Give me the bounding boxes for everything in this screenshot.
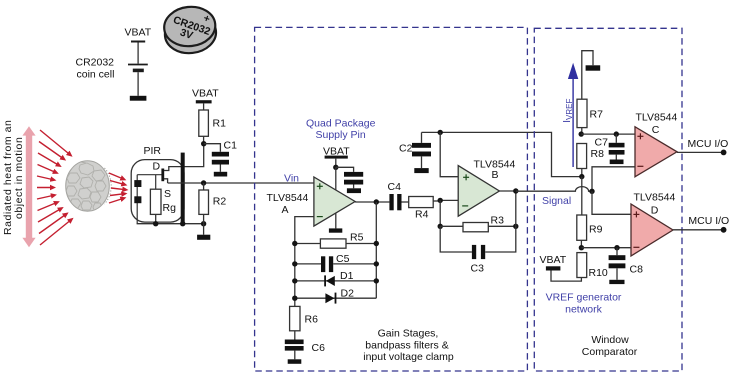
svg-text:C6: C6 bbox=[312, 342, 326, 354]
svg-text:C: C bbox=[652, 124, 660, 136]
op-amp U1B label bbox=[474, 159, 516, 182]
wire R3 row right bbox=[488, 225, 516, 227]
capacitor C2 plate 2 bbox=[412, 152, 431, 157]
wire signal to D plus bbox=[592, 191, 631, 214]
junction R9 R10 bbox=[579, 245, 584, 250]
svg-text:R5: R5 bbox=[350, 232, 364, 244]
capacitor C8 plate 2 bbox=[609, 263, 626, 268]
svg-text:CR2032: CR2032 bbox=[76, 57, 115, 69]
ground bbox=[130, 96, 147, 101]
capacitor C3 plate 2 bbox=[481, 245, 485, 259]
wire supply to bypass cap bbox=[336, 167, 354, 172]
svg-text:object in motion: object in motion bbox=[13, 137, 25, 219]
junction D2 left bbox=[292, 296, 297, 301]
wire supply node into op-amp A bbox=[335, 167, 337, 190]
wire R10 to VBAT bbox=[551, 271, 581, 282]
op-amp D plus pin bbox=[633, 211, 639, 217]
resistor R5 bbox=[320, 239, 346, 248]
junction vref node bbox=[579, 174, 584, 179]
op-amp U1A bbox=[314, 177, 355, 226]
svg-text:C2: C2 bbox=[399, 143, 413, 155]
wire R3 row left bbox=[440, 225, 463, 227]
battery plate short bbox=[133, 69, 144, 73]
VBAT rail bar bbox=[196, 100, 212, 103]
JFET source lead bbox=[164, 179, 168, 183]
svg-text:S: S bbox=[164, 188, 171, 200]
svg-text:Gain Stages,: Gain Stages, bbox=[378, 328, 439, 340]
battery plate long bbox=[128, 64, 148, 66]
svg-text:MCU I/O: MCU I/O bbox=[688, 215, 729, 227]
wire C8 to ground bbox=[616, 268, 618, 280]
svg-text:C1: C1 bbox=[224, 140, 238, 152]
svg-text:C4: C4 bbox=[388, 181, 402, 193]
node MCU I/O (C) bbox=[721, 150, 727, 156]
ground C2 bbox=[414, 168, 428, 173]
svg-text:D2: D2 bbox=[341, 288, 355, 300]
junction D1 right bbox=[374, 278, 379, 283]
wire C7 to ground bbox=[615, 155, 617, 160]
junction signal node bbox=[589, 189, 594, 194]
ground C6 bbox=[288, 359, 302, 364]
wire R8 to vref node bbox=[581, 169, 583, 177]
svg-text:D: D bbox=[153, 161, 161, 173]
diode D2 bbox=[325, 293, 334, 303]
svg-text:VREF generator: VREF generator bbox=[546, 292, 622, 304]
fresnel lens dome bbox=[66, 161, 112, 211]
wire feedback left rail bbox=[294, 244, 296, 307]
op-amp U1C label bbox=[636, 111, 678, 136]
svg-text:Comparator: Comparator bbox=[582, 346, 638, 358]
wire divider top L bbox=[582, 51, 593, 99]
wire B plus bias node bbox=[422, 132, 582, 176]
svg-text:R9: R9 bbox=[589, 224, 603, 236]
svg-text:R10: R10 bbox=[589, 267, 608, 279]
svg-text:Quad Package: Quad Package bbox=[306, 118, 376, 130]
wire D1 row bbox=[295, 280, 377, 282]
wire vref rail through hop bbox=[581, 177, 583, 215]
diode D1 bbox=[326, 276, 335, 286]
wire bbox=[137, 43, 139, 64]
junction C5 left bbox=[292, 261, 297, 266]
resistor R6 bbox=[290, 306, 300, 330]
JFET channel bbox=[161, 169, 164, 182]
capacitor C2 plate 1 bbox=[412, 143, 431, 148]
wire node to C1 bbox=[204, 144, 221, 152]
op-amp A minus pin bbox=[317, 216, 323, 218]
op-amp C minus pin bbox=[637, 165, 643, 167]
wire C3 to output rail bbox=[485, 191, 516, 252]
wire VBAT to R1 bbox=[203, 103, 205, 110]
node label: Gain Stages, bandpass filters & input voltage clamp bbox=[363, 328, 454, 364]
wire upper threshold to C plus bbox=[581, 133, 635, 135]
svg-text:D: D bbox=[651, 205, 659, 217]
capacitor C6 plate 2 bbox=[285, 346, 304, 351]
junction B plus node bbox=[438, 130, 443, 135]
svg-text:TLV8544: TLV8544 bbox=[634, 191, 676, 203]
svg-text:C7: C7 bbox=[595, 137, 609, 149]
svg-text:R2: R2 bbox=[213, 196, 227, 208]
node label: Quad Package Supply Pin bbox=[306, 118, 376, 142]
diode D2 cathode bar bbox=[335, 293, 337, 304]
ground op-amp A bbox=[329, 228, 342, 232]
junction B minus bbox=[438, 198, 443, 203]
svg-text:TLV8544: TLV8544 bbox=[267, 192, 309, 204]
PIR can tab bar bbox=[181, 153, 185, 224]
resistor R8 bbox=[577, 144, 587, 169]
svg-text:R4: R4 bbox=[415, 209, 429, 221]
svg-text:R6: R6 bbox=[305, 314, 319, 326]
op-amp B minus pin bbox=[462, 205, 468, 207]
bypass capacitor plate 1 bbox=[344, 172, 363, 177]
resistor Rg bbox=[150, 189, 161, 214]
battery CR2032 coin cell drawing bbox=[162, 4, 218, 55]
wire D2 row bbox=[295, 297, 377, 299]
capacitor C8 plate 1 bbox=[609, 255, 626, 260]
junction C8 tap bbox=[614, 245, 619, 250]
capacitor C5 plate 2 bbox=[329, 256, 333, 272]
wire Rg bottom bbox=[155, 214, 157, 223]
node label: CR2032 coin cell bbox=[76, 57, 115, 81]
node MCU I/O (D) bbox=[721, 227, 727, 233]
wire R5 row right bbox=[346, 243, 376, 245]
capacitor C3 plate 1 bbox=[472, 245, 476, 259]
junction D1 left bbox=[292, 278, 297, 283]
resistor R3 bbox=[463, 223, 488, 232]
ground R2 bbox=[197, 235, 210, 240]
wire feedback right rail bbox=[375, 202, 377, 298]
junction C5 right bbox=[374, 261, 379, 266]
wire C minus to signal node bbox=[592, 167, 635, 192]
wire gnd stem bbox=[203, 224, 205, 235]
junction R3 right bbox=[513, 224, 518, 229]
junction R5 right bbox=[374, 241, 379, 246]
wire R9 to node bbox=[580, 240, 582, 247]
svg-text:R1: R1 bbox=[213, 118, 227, 130]
wire lower threshold to D minus bbox=[581, 247, 631, 249]
svg-text:C8: C8 bbox=[630, 264, 644, 276]
wire op-amp A output bbox=[355, 201, 389, 203]
wire R5 row left bbox=[295, 243, 321, 245]
wire C5 row left bbox=[295, 263, 321, 265]
svg-text:bandpass filters &: bandpass filters & bbox=[365, 339, 448, 351]
op-amp B plus pin bbox=[463, 174, 469, 180]
resistor R9 bbox=[577, 215, 587, 240]
wire C2 stem bbox=[421, 132, 423, 143]
resistor Rg stem bbox=[155, 175, 157, 190]
wire B minus input bbox=[440, 199, 458, 201]
capacitor C4 plate 2 bbox=[397, 194, 401, 210]
wire R1 to node bbox=[203, 136, 205, 143]
wire B output bbox=[499, 190, 515, 192]
motion double arrow bbox=[22, 126, 35, 247]
wire B minus to R3 row bbox=[439, 200, 441, 226]
svg-text:VBAT: VBAT bbox=[540, 254, 567, 266]
svg-text:R7: R7 bbox=[590, 109, 604, 121]
bypass capacitor plate 2 bbox=[344, 180, 363, 185]
wire Vin main line bbox=[168, 182, 314, 184]
svg-text:D1: D1 bbox=[340, 270, 354, 282]
wire C5 row right bbox=[333, 263, 376, 265]
op-amp A plus pin bbox=[317, 183, 323, 189]
wire D output bbox=[673, 229, 724, 231]
wire common line bbox=[137, 223, 204, 225]
junction C7 tap bbox=[614, 131, 619, 136]
svg-text:VBAT: VBAT bbox=[125, 27, 152, 39]
wire C1 to ground bbox=[219, 165, 221, 172]
window comparator dashed box bbox=[534, 28, 682, 371]
wire A minus input bbox=[295, 217, 314, 244]
op-amp U1D label bbox=[634, 191, 676, 216]
VBAT rail bar (vref) bbox=[546, 266, 561, 270]
wire Signal with hop bbox=[516, 187, 592, 192]
svg-text:R8: R8 bbox=[591, 148, 605, 160]
capacitor C6 plate 1 bbox=[285, 340, 304, 345]
wire R6 to C6 bbox=[294, 331, 296, 340]
wire C4 to R4 bbox=[402, 201, 409, 203]
PIR can body bbox=[131, 160, 184, 223]
junction supply node bbox=[333, 165, 338, 170]
svg-text:Supply Pin: Supply Pin bbox=[316, 129, 366, 141]
svg-text:Signal: Signal bbox=[542, 195, 571, 207]
capacitor C5 plate 1 bbox=[321, 256, 325, 272]
capacitor C1 plate 1 bbox=[212, 152, 229, 157]
svg-text:C5: C5 bbox=[336, 253, 350, 265]
radiated heat rays (left) bbox=[37, 130, 72, 245]
resistor R4 bbox=[409, 197, 434, 208]
pyro electrode 1 bbox=[134, 180, 141, 187]
junction drain node bbox=[201, 141, 206, 146]
junction Rg-gnd bbox=[153, 221, 158, 226]
svg-text:C3: C3 bbox=[471, 263, 485, 275]
junction R5 left bbox=[292, 241, 297, 246]
wire bbox=[137, 72, 139, 96]
wire R2 to gnd line bbox=[203, 214, 205, 223]
wire gate line bbox=[137, 174, 161, 176]
junction R3 left bbox=[438, 224, 443, 229]
svg-text:Window: Window bbox=[591, 334, 629, 346]
wire R7 to node bbox=[581, 128, 583, 135]
wire C3 branch bbox=[440, 226, 472, 252]
wire C8 stem bbox=[616, 248, 618, 256]
JFET drain lead bbox=[164, 144, 204, 171]
op-amp U1B bbox=[458, 166, 499, 217]
node label: Radiated heat from an object in motion bbox=[2, 120, 25, 235]
resistor R7 bbox=[577, 99, 587, 127]
svg-text:R3: R3 bbox=[491, 215, 505, 227]
diode D1 cathode bar bbox=[324, 275, 326, 286]
wire node to B plus input bbox=[440, 132, 458, 176]
wire VBAT to supply node bbox=[335, 159, 337, 168]
wire C6 to ground bbox=[294, 351, 296, 360]
node label: VREF generator network bbox=[546, 292, 622, 316]
svg-text:A: A bbox=[282, 204, 289, 216]
svg-text:input voltage clamp: input voltage clamp bbox=[363, 351, 454, 363]
junction source node bbox=[201, 180, 206, 185]
junction can-gnd bbox=[180, 221, 185, 226]
junction R7 R8 bbox=[579, 131, 584, 136]
svg-text:MCU I/O: MCU I/O bbox=[688, 138, 729, 150]
op-amp U1C bbox=[635, 127, 677, 177]
capacitor C7 plate 1 bbox=[609, 143, 625, 148]
capacitor C7 plate 2 bbox=[609, 150, 625, 155]
ground C7 bbox=[610, 160, 624, 165]
battery symbol VBAT bbox=[125, 27, 152, 101]
ground bypass cap bbox=[347, 188, 361, 193]
wire C7 stem bbox=[615, 134, 617, 143]
svg-text:TLV8544: TLV8544 bbox=[636, 111, 678, 123]
svg-text:B: B bbox=[492, 169, 499, 181]
node label: Window Comparator bbox=[582, 334, 638, 358]
pyro electrode 2 bbox=[134, 196, 141, 203]
wire C2 to ground bbox=[421, 156, 423, 168]
wire op-amp A Vminus to ground bbox=[335, 214, 337, 229]
resistor R10 bbox=[577, 253, 587, 278]
op-amp U1A label bbox=[267, 192, 309, 216]
resistor R1 bbox=[199, 110, 209, 136]
wire R4 to B minus node bbox=[433, 200, 440, 202]
ground C1 bbox=[214, 172, 227, 177]
pyroelectric element line bbox=[136, 175, 138, 224]
capacitor C4 plate 1 bbox=[389, 194, 393, 210]
svg-text:PIR: PIR bbox=[144, 145, 162, 157]
wire C output bbox=[677, 151, 724, 153]
svg-text:coin cell: coin cell bbox=[77, 69, 115, 81]
junction R2-gnd bbox=[201, 221, 206, 226]
ground divider top bbox=[586, 65, 601, 70]
wire node to R2 bbox=[203, 183, 205, 190]
resistor R2 bbox=[199, 190, 209, 214]
gain stages dashed box bbox=[255, 27, 528, 371]
VBAT rail bar bbox=[325, 156, 348, 159]
svg-text:VBAT: VBAT bbox=[192, 88, 219, 100]
junction A output bbox=[374, 199, 379, 204]
op-amp D minus pin bbox=[633, 246, 639, 248]
op-amp U1D bbox=[631, 204, 673, 256]
IVREF current arrow bbox=[568, 63, 578, 167]
svg-text:Rg: Rg bbox=[163, 202, 177, 214]
ground C8 bbox=[609, 280, 624, 284]
junction B output bbox=[513, 188, 518, 193]
svg-text:Vin: Vin bbox=[284, 173, 299, 185]
wire bypass cap to ground bbox=[353, 185, 355, 189]
focused rays (right of lens) bbox=[109, 173, 127, 203]
capacitor C1 plate 2 bbox=[212, 160, 229, 165]
svg-text:network: network bbox=[565, 304, 603, 316]
op-amp C plus pin bbox=[637, 133, 643, 139]
